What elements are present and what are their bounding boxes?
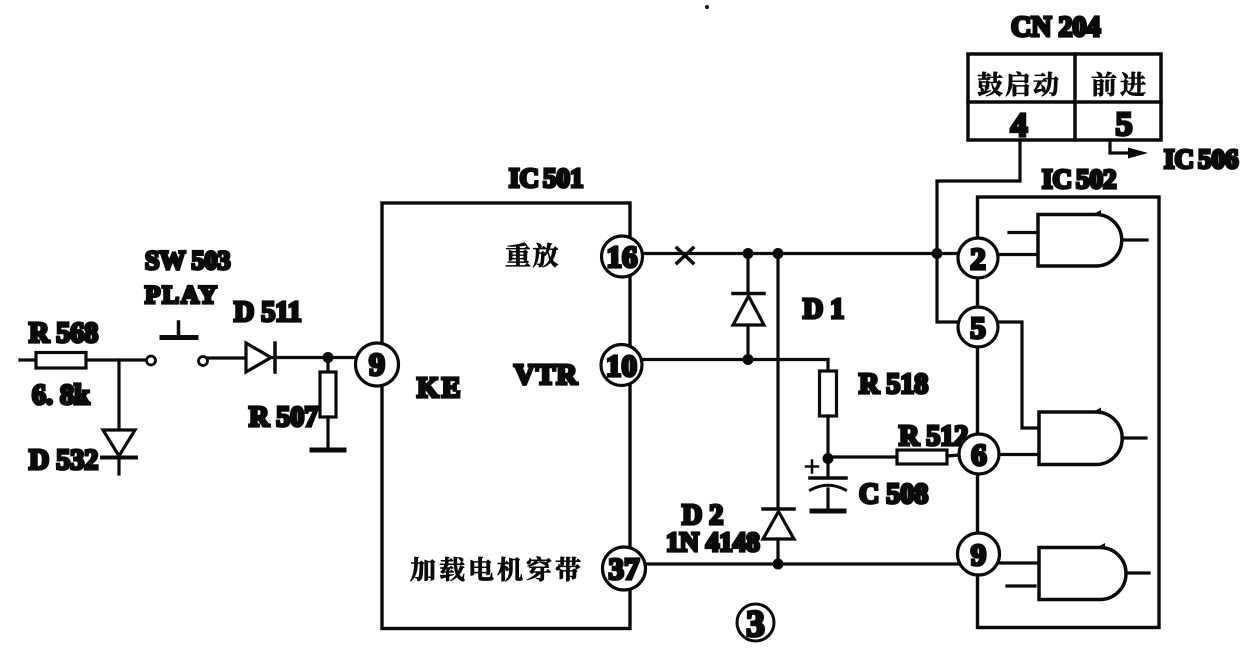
label D511 <box>234 297 302 328</box>
svg-text:IC506: IC506 <box>1164 144 1239 174</box>
resistor R568 <box>36 353 86 369</box>
label pin37 加载电机穿带 (loading motor threading) <box>410 557 580 582</box>
svg-text:3: 3 <box>746 604 765 645</box>
svg-text:R 518: R 518 <box>859 369 928 400</box>
label SW503 <box>145 246 231 275</box>
speck artifact top center <box>705 5 709 9</box>
svg-text:5: 5 <box>970 310 986 345</box>
pin 16 of IC501 <box>602 236 643 277</box>
resistor R518 <box>820 360 837 459</box>
wire R568 to switch contact <box>86 358 146 361</box>
X mark on pin16 wire <box>677 248 693 263</box>
svg-text:R 568: R 568 <box>29 318 98 349</box>
svg-text:KE: KE <box>417 373 463 404</box>
wire pin16 net to IC502 pin2 <box>643 252 958 255</box>
ground for R507 <box>312 448 344 453</box>
junction dot at R507 <box>323 352 334 363</box>
junction dot D2 top <box>773 248 784 259</box>
svg-text:D 511: D 511 <box>234 297 302 328</box>
ground for C508 <box>812 509 844 514</box>
svg-text:R 512: R 512 <box>899 421 968 452</box>
svg-text:1N 4148: 1N 4148 <box>666 527 760 557</box>
pin 4 of CN204 <box>1011 107 1028 144</box>
junction dot D1 bottom <box>743 354 754 365</box>
label pin16 重放 (playback) <box>506 243 558 268</box>
diode D532 <box>102 430 136 474</box>
figure number 3 circled <box>737 604 774 645</box>
value 1N4148 <box>666 527 760 557</box>
capacitor C508 <box>806 459 846 510</box>
wire switch to D511 <box>208 356 246 359</box>
switch SW503 actuator <box>162 322 196 338</box>
svg-text:C 508: C 508 <box>859 479 928 510</box>
wire IC502 pin5 to gate2 input <box>998 322 1039 428</box>
svg-text:D 532: D 532 <box>29 445 98 476</box>
junction dot R518/C508/R512 <box>823 453 834 464</box>
junction dot CN204-4 net <box>932 248 943 259</box>
svg-text:16: 16 <box>607 239 638 274</box>
pin 9 of IC502 <box>958 533 1000 575</box>
resistor R512 <box>897 450 960 464</box>
pin 2 of IC502 <box>958 238 998 278</box>
connector CN204 table <box>968 54 1161 140</box>
cell label 前进 (forward) <box>1092 72 1146 96</box>
svg-text:R 507: R 507 <box>249 402 318 433</box>
junction dot D1 top <box>743 248 754 259</box>
diode D2 vertical wire <box>776 254 779 509</box>
AND gate 1 <box>998 210 1147 266</box>
svg-text:9: 9 <box>369 346 385 382</box>
diode D2 <box>763 509 794 564</box>
resistor R507 <box>320 358 336 449</box>
wire CN204-5 to IC506 arrow <box>1110 140 1148 159</box>
wire D511 to pin9 <box>271 356 356 359</box>
label KE <box>417 373 463 404</box>
label C508 <box>859 479 928 510</box>
value 6.8k <box>32 380 90 411</box>
IC U502 box <box>978 197 1160 628</box>
label IC506 <box>1164 144 1239 174</box>
svg-text:IC502: IC502 <box>1042 164 1117 194</box>
svg-text:9: 9 <box>971 537 987 572</box>
label PLAY <box>145 282 219 309</box>
AND gate 2 <box>999 408 1146 465</box>
wire left stub into R568 <box>20 358 37 361</box>
junction dot D2 bottom <box>773 559 784 570</box>
svg-text:5: 5 <box>1116 106 1133 143</box>
wire pin10 net <box>642 358 828 361</box>
label D1 <box>803 294 844 325</box>
svg-text:10: 10 <box>606 348 637 383</box>
svg-text:6: 6 <box>971 437 987 472</box>
pin 9 of IC501 <box>356 343 399 386</box>
cell label 鼓启动 (drum start) <box>978 72 1059 97</box>
diode D511 <box>246 343 275 372</box>
label CN204 <box>1011 12 1100 43</box>
switch SW503 contact left <box>147 356 156 365</box>
label D2 <box>682 500 723 531</box>
IC U501 box <box>382 203 630 629</box>
switch SW503 contact right <box>199 357 208 366</box>
pin 10 of IC501 <box>601 345 642 386</box>
pin 6 of IC502 <box>959 434 999 474</box>
AND gate 3 <box>1000 543 1150 600</box>
svg-text:2: 2 <box>970 241 986 276</box>
wire junction to R512 <box>828 455 897 458</box>
node junction to D532 <box>117 360 120 430</box>
wire CN204-4 down to IC502 pin5 <box>937 140 1020 322</box>
svg-text:D 1: D 1 <box>803 294 844 325</box>
label R518 <box>859 369 928 400</box>
diode D1 <box>733 254 764 360</box>
pin 5 of IC502 <box>958 307 998 347</box>
label D532 <box>29 445 98 476</box>
svg-text:IC501: IC501 <box>509 163 584 193</box>
svg-text:PLAY: PLAY <box>145 282 219 309</box>
label IC501 <box>509 163 584 193</box>
pin 37 of IC501 <box>603 547 646 590</box>
svg-text:CN 204: CN 204 <box>1011 12 1100 43</box>
svg-text:6. 8k: 6. 8k <box>32 380 90 411</box>
label VTR <box>514 359 578 391</box>
pin 5 of CN204 <box>1116 106 1133 143</box>
wire pin37 net to IC502 pin9 <box>645 562 958 565</box>
label R568 <box>29 318 98 349</box>
label R512 <box>899 421 968 452</box>
label IC502 <box>1042 164 1117 194</box>
svg-text:37: 37 <box>609 551 640 586</box>
label R507 <box>249 402 318 433</box>
svg-text:VTR: VTR <box>514 359 578 391</box>
svg-text:SW 503: SW 503 <box>145 246 231 275</box>
